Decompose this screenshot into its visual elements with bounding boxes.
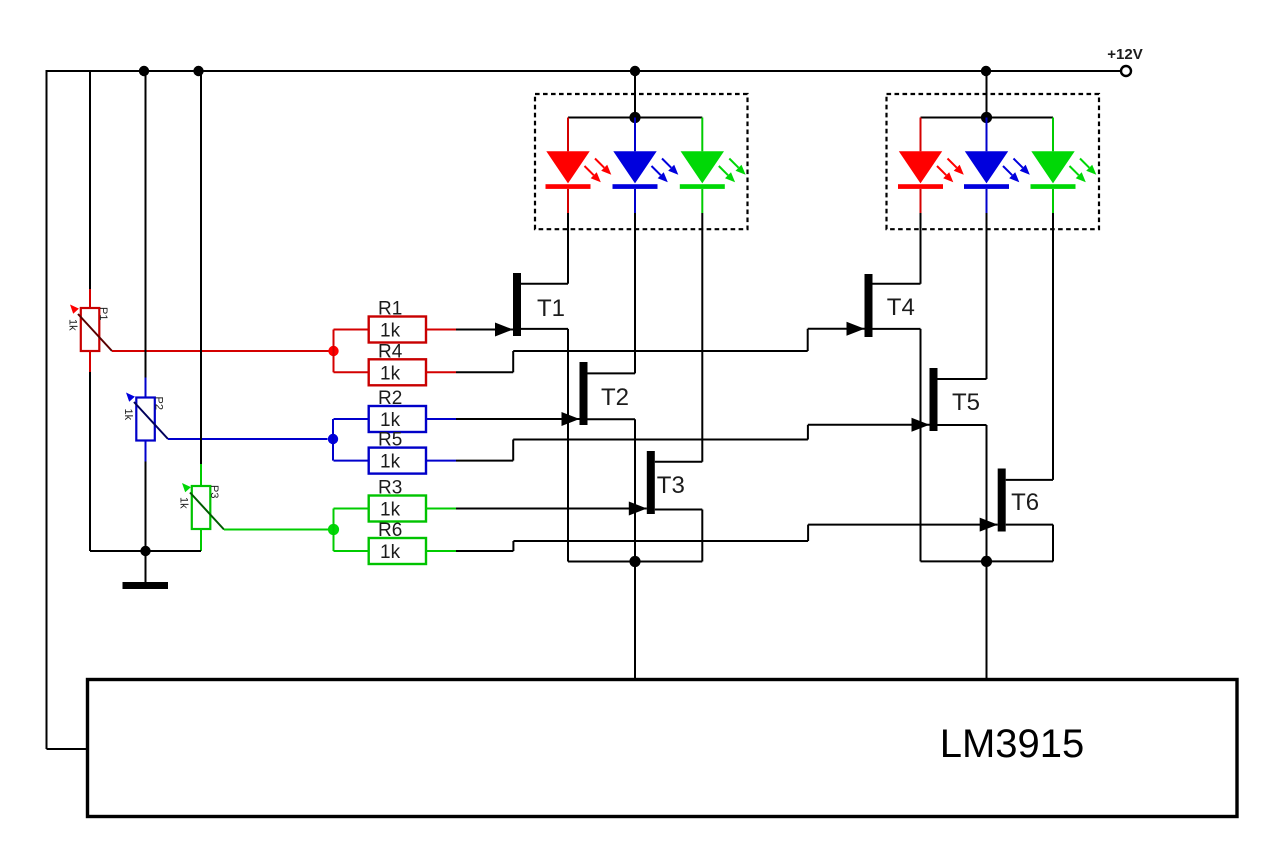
wire P2 wiper to node B (blue) <box>168 438 328 440</box>
node B (blue junction) <box>328 434 338 444</box>
svg-text:1k: 1k <box>380 363 401 384</box>
svg-text:T1: T1 <box>537 295 565 322</box>
wire P3 bottom pin (green) <box>200 528 202 551</box>
wire R6 to T6 gate <box>456 550 513 552</box>
svg-text:1k: 1k <box>122 409 134 421</box>
wire P1 top pin (red) <box>89 289 91 308</box>
svg-text:R3: R3 <box>378 478 402 499</box>
transistor T1 <box>513 273 521 336</box>
wire rail to LED2 anodes <box>986 71 988 118</box>
wire +12V top rail <box>47 70 1121 72</box>
junction LED2 anodes <box>981 112 992 123</box>
svg-text:P1: P1 <box>97 307 109 320</box>
resistor R2 1k <box>369 406 426 432</box>
transistor T5 <box>930 368 938 431</box>
svg-text:T5: T5 <box>952 389 980 416</box>
junction rail-LED2 <box>981 66 991 76</box>
wire T1 drain to LED1 red cathode <box>521 283 568 285</box>
wire LED1 anode bus <box>568 117 702 119</box>
wire P1 wiper to node R (red) <box>112 350 329 352</box>
potentiometer P1 <box>81 308 100 351</box>
wire T1 source down <box>521 328 568 330</box>
LED group 1 dashed box <box>535 94 748 229</box>
LED red 1 <box>567 118 569 152</box>
svg-text:T6: T6 <box>1011 489 1039 516</box>
wire rail to LED1 anodes <box>634 71 636 118</box>
node G (green junction) <box>328 524 339 535</box>
svg-text:1k: 1k <box>380 321 401 342</box>
wire node G to R3/R6 (green vertical) <box>333 509 335 552</box>
svg-text:R1: R1 <box>378 299 402 320</box>
LED green 2 <box>1052 118 1054 152</box>
wire P2 top pin (blue) <box>145 378 147 398</box>
resistor R4 1k <box>369 359 426 385</box>
transistor T3 <box>647 451 655 514</box>
wire P1 bottom pin (red) <box>89 350 91 372</box>
wire rail to P3 <box>200 71 202 464</box>
wire T6 drain to LED2 green cathode <box>1006 479 1053 481</box>
resistor R5 1k <box>369 448 426 474</box>
junction ground <box>140 546 150 556</box>
LED green 1 <box>701 118 703 152</box>
svg-text:1k: 1k <box>380 542 401 563</box>
resistor R1 1k <box>369 317 426 343</box>
svg-text:R5: R5 <box>378 430 402 451</box>
svg-text:1k: 1k <box>380 500 401 521</box>
wire T3 drain to LED1 green cathode <box>655 461 703 463</box>
transistor T2 <box>580 362 588 425</box>
ground symbol <box>145 551 147 582</box>
wire LED2 anode bus <box>921 117 1054 119</box>
wire R1 to T1 gate <box>456 329 513 331</box>
wire bus1 to LM3915 <box>634 562 636 680</box>
svg-text:P3: P3 <box>208 485 220 498</box>
wire T2 drain to LED1 blue cathode <box>588 372 636 374</box>
LED red 2 <box>920 118 922 152</box>
svg-text:T4: T4 <box>887 294 915 321</box>
wire P2 bottom pin (blue) <box>145 440 147 462</box>
wire T6 source down <box>1006 524 1053 526</box>
wire ground bus <box>90 550 201 552</box>
wire source bus left group <box>568 561 702 563</box>
svg-text:T3: T3 <box>657 472 685 499</box>
svg-text:T2: T2 <box>601 384 629 411</box>
wire R4 to T4 gate <box>456 371 513 373</box>
wire source bus right group <box>921 560 1054 562</box>
svg-text:1k: 1k <box>178 497 190 509</box>
wire rail to P2 <box>145 71 147 378</box>
potentiometer P3 <box>192 486 211 529</box>
wire T2 source down <box>588 418 636 420</box>
node R (red junction) <box>328 346 338 356</box>
IC LM3915 box <box>88 680 1238 817</box>
wire P2 to ground junction <box>145 462 147 552</box>
wire T5 source down <box>938 424 987 426</box>
svg-text:LM3915: LM3915 <box>940 722 1085 766</box>
LED blue 1 <box>634 118 636 152</box>
resistor R6 1k <box>369 538 426 564</box>
svg-text:1k: 1k <box>67 319 79 331</box>
wire T4 source down <box>873 328 921 330</box>
wire T4 drain to LED2 red cathode <box>873 283 921 285</box>
wire node B to R2/R5 (blue vertical) <box>332 419 334 461</box>
junction rail-P3 <box>193 66 203 76</box>
wire T5 drain to LED2 blue cathode <box>938 378 987 380</box>
wire rail to P1 <box>89 71 91 289</box>
svg-text:1k: 1k <box>380 410 401 431</box>
wire R2 to T2 gate <box>456 418 580 420</box>
wire R5 to T5 gate <box>456 460 513 462</box>
wire left drop to LM3915 <box>46 70 48 749</box>
junction rail-P2 <box>139 66 149 76</box>
svg-text:R2: R2 <box>378 388 402 409</box>
transistor T4 <box>865 274 873 337</box>
resistor R3 1k <box>369 496 426 522</box>
LED blue 2 <box>986 118 988 152</box>
junction bus1 <box>629 556 640 567</box>
junction rail-LED1 <box>630 66 640 76</box>
svg-text:1k: 1k <box>380 452 401 473</box>
wire P1 to ground bus <box>89 372 91 551</box>
svg-text:R4: R4 <box>378 341 403 362</box>
junction bus2 <box>981 556 992 567</box>
wire T3 source down <box>655 509 703 511</box>
potentiometer P2 <box>136 398 155 441</box>
wire node R to R1/R4 (red vertical) <box>333 330 335 373</box>
LED group 2 dashed box <box>887 94 1100 229</box>
svg-text:R6: R6 <box>378 520 402 541</box>
wire P3 wiper to node G (green) <box>224 529 328 531</box>
wire P3 top pin (green) <box>200 464 202 486</box>
svg-text:P2: P2 <box>153 397 165 410</box>
terminal +12V open circle <box>1121 66 1131 76</box>
svg-text:+12V: +12V <box>1107 46 1142 63</box>
wire R3 to T3 gate <box>456 508 647 510</box>
junction LED1 anodes <box>629 112 640 123</box>
transistor T6 <box>998 469 1006 532</box>
wire bus2 to LM3915 <box>986 561 988 679</box>
